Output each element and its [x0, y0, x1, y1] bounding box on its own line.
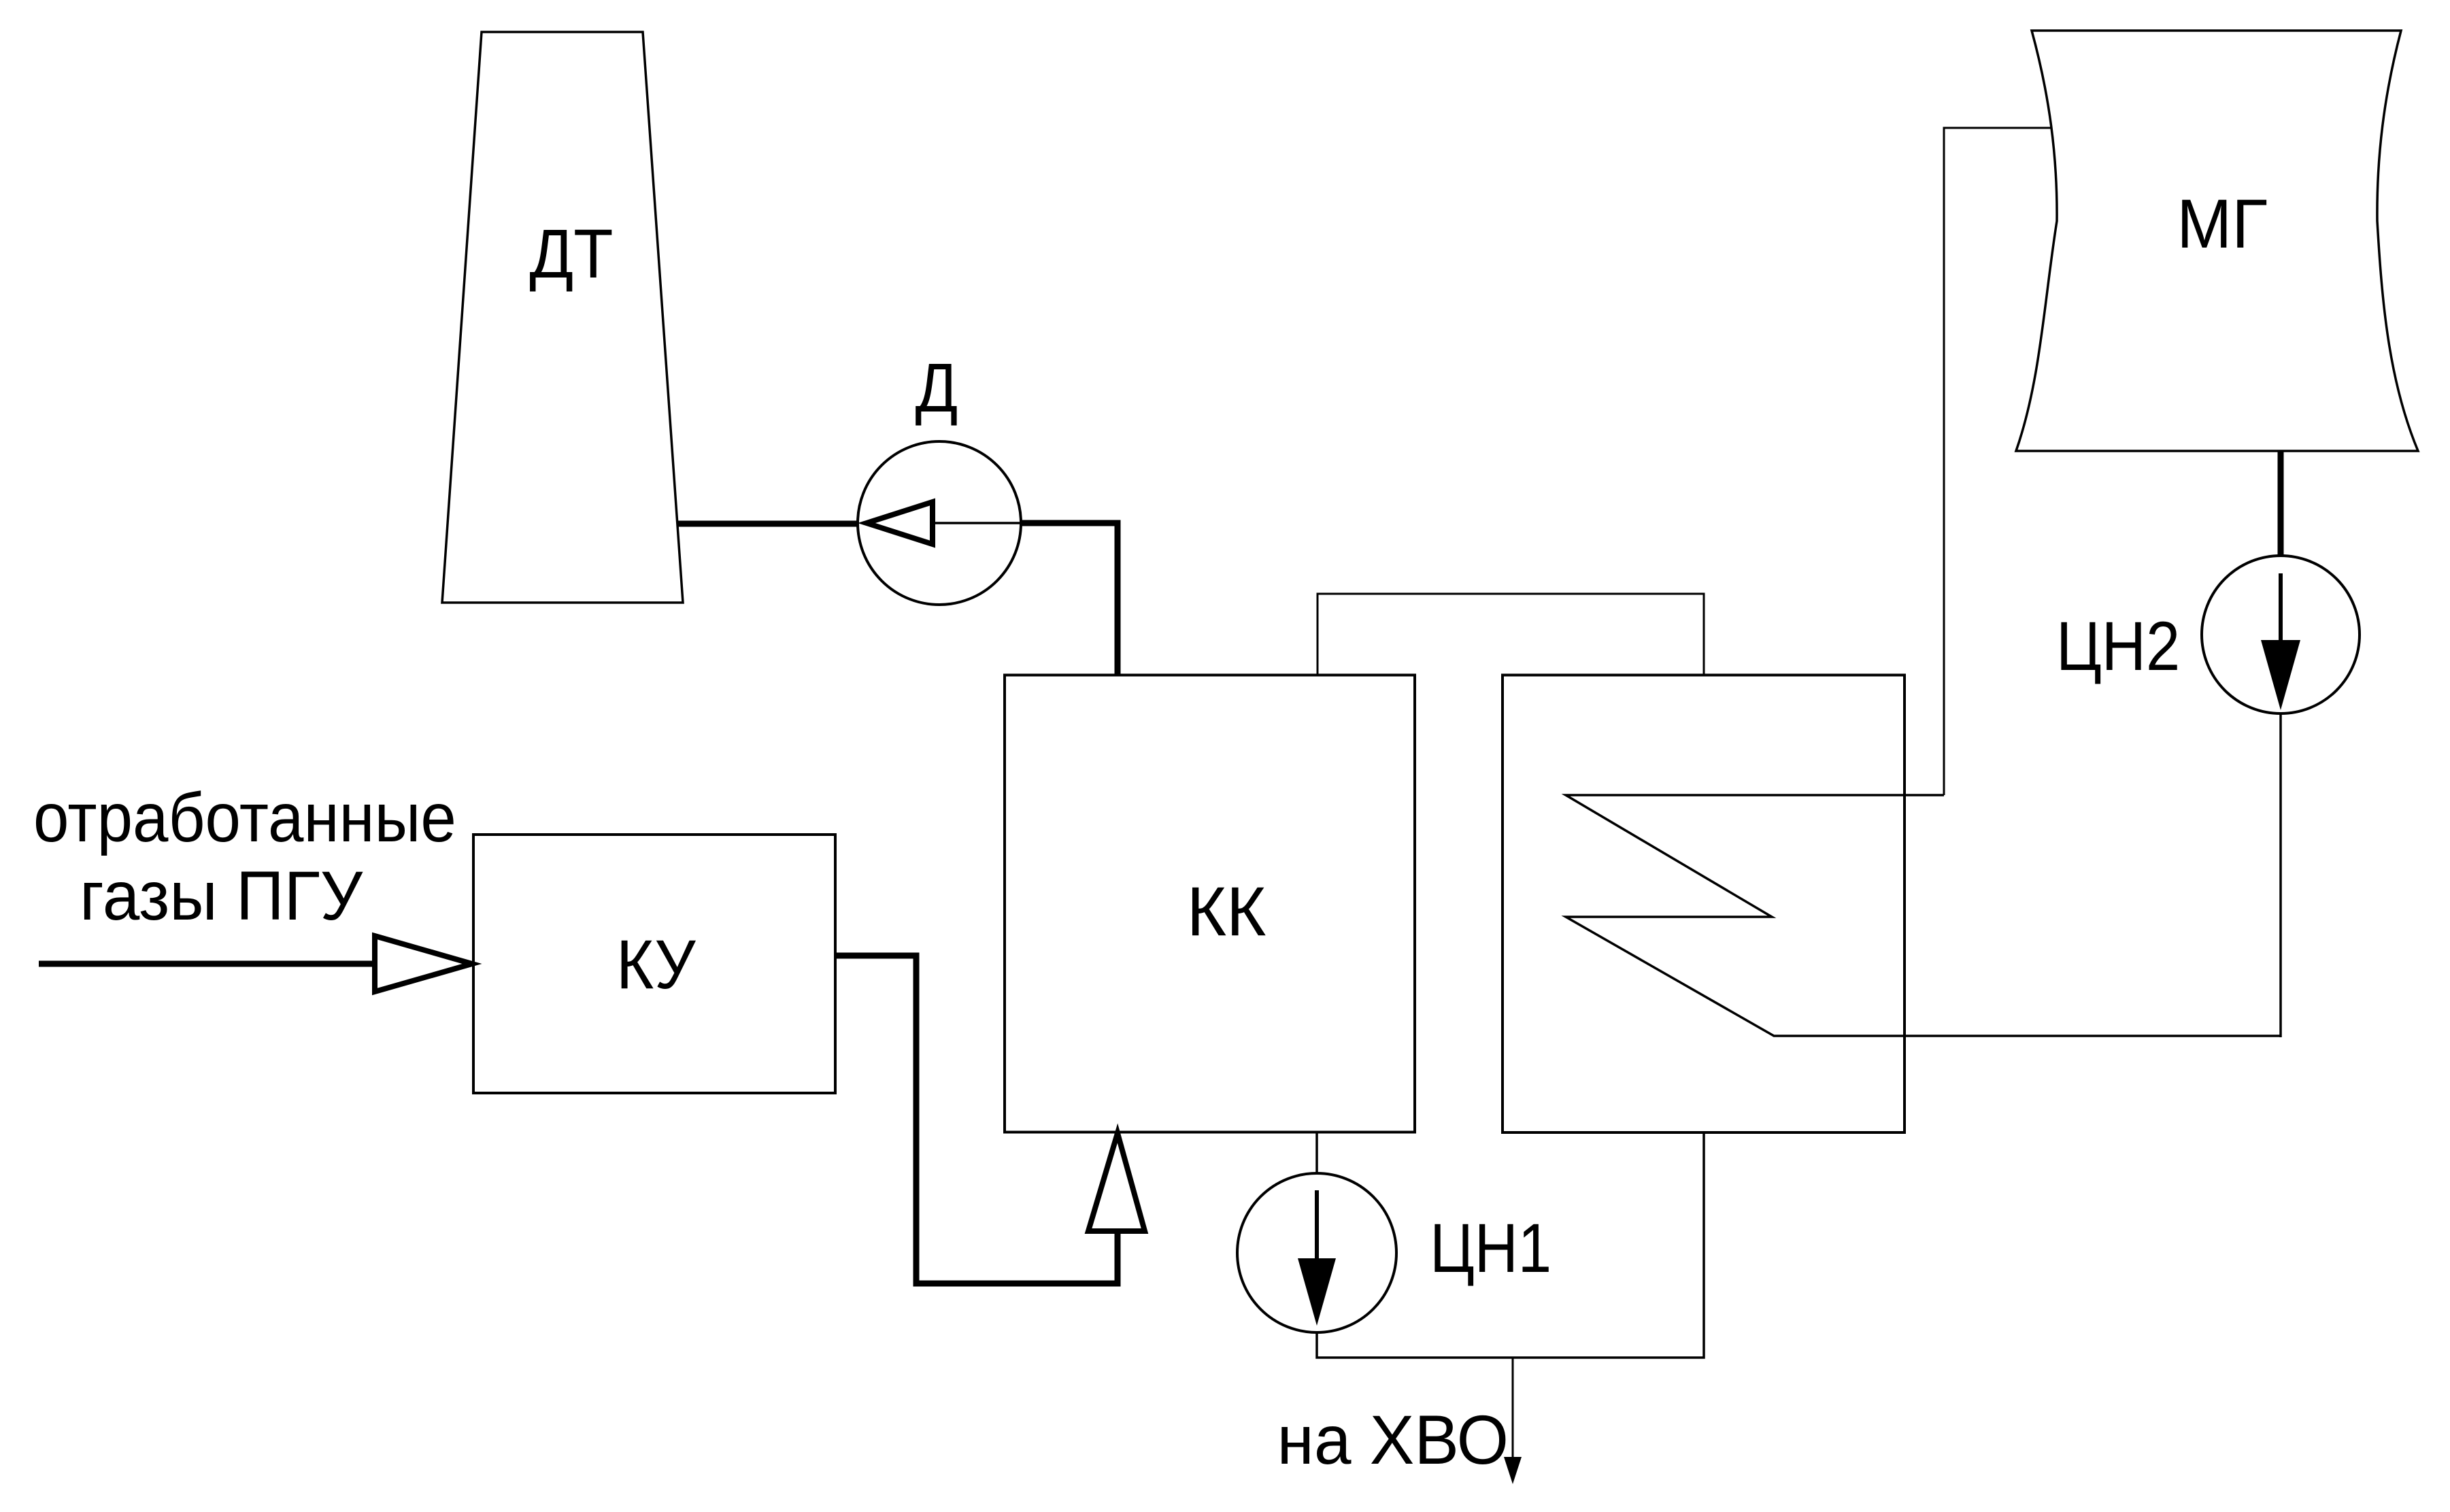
wire: pump ЦН2 outlet down to coil inlet — [2279, 713, 2282, 1037]
svg-text:ДТ: ДТ — [529, 215, 613, 292]
svg-text:ЦН2: ЦН2 — [2056, 608, 2180, 685]
wire: pump ЦН1 outlet, drain header, heat exchanger drain — [1317, 1132, 1704, 1358]
stack ДТ (flue-gas chimney, trapezoid) — [442, 32, 683, 603]
heat exchanger body (box) — [1503, 675, 1904, 1133]
wire: МГ bottom outlet to pump ЦН2 — [2278, 451, 2284, 558]
svg-text:КУ: КУ — [616, 926, 697, 1003]
wire: riser from coil to cooling tower МГ — [1944, 128, 2054, 795]
wire: exhaust gas inlet line — [39, 961, 375, 967]
pump ЦН1 (circle) — [1237, 1173, 1396, 1332]
wire: КК bottom drain to pump ЦН1 — [1315, 1132, 1318, 1175]
svg-text:КК: КК — [1187, 873, 1266, 950]
pump ЦН2 (circle) — [2202, 556, 2360, 713]
fan Д internal line — [933, 522, 1020, 524]
fan Д hollow arrow (points left) — [867, 502, 933, 544]
cooling tower МГ (hyperbolic profile) — [2016, 31, 2418, 451]
wire: flue gas pipe from ДТ to fan Д — [678, 521, 859, 527]
heat exchanger coil (zigzag) with outlet to МГ riser and inlet from ЦН2 — [1566, 795, 2281, 1036]
svg-text:Д: Д — [916, 349, 958, 426]
fan Д (circle) — [858, 441, 1021, 605]
pump ЦН2 arrow stem — [2279, 573, 2283, 643]
wire: vapour link КК top to heat exchanger top (T shape) — [1318, 594, 1704, 676]
pump ЦН1 arrow stem — [1315, 1190, 1319, 1260]
hollow arrow into КК bottom (points up) — [1088, 1133, 1145, 1231]
wire: КУ outlet to КК bottom — [835, 956, 1118, 1283]
pump ЦН2 solid arrowhead (down) — [2261, 640, 2300, 710]
boiler КК (box) — [1005, 675, 1415, 1132]
wire: fan Д outlet to КК top — [1020, 523, 1118, 678]
svg-text:МГ: МГ — [2177, 186, 2268, 263]
hollow arrow into КУ (points right) — [375, 936, 472, 992]
waste-heat boiler КУ (box) — [473, 835, 835, 1093]
solid arrowhead to ХВО — [1504, 1457, 1522, 1484]
svg-text:ЦН1: ЦН1 — [1430, 1209, 1551, 1287]
wire: branch to ХВО (down arrow) — [1512, 1358, 1514, 1459]
svg-text:отработанные: отработанные — [33, 779, 456, 856]
svg-text:на ХВО: на ХВО — [1277, 1401, 1509, 1479]
pump ЦН1 solid arrowhead (down) — [1298, 1258, 1336, 1326]
svg-text:газы ПГУ: газы ПГУ — [80, 857, 363, 935]
